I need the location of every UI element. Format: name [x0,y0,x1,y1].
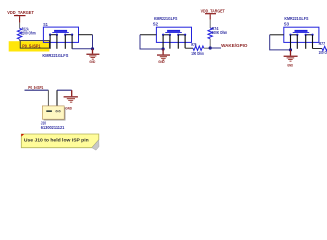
wire pin4 to R77 [313,48,323,50]
svg-text:100 Ohm: 100 Ohm [319,50,327,55]
wire pin4 to gnd node [72,48,92,50]
svg-text:KMR221GLFS: KMR221GLFS [42,53,68,58]
power flag VDD_TARGET (right) [201,8,225,19]
junction [91,47,94,50]
wire J10 pin2 up [56,90,58,106]
svg-text:S3: S3 [284,21,290,26]
svg-text:VDD_TARGET: VDD_TARGET [201,8,225,13]
wire S1 right side stub [79,34,93,36]
svg-text:P0_5-ISP1: P0_5-ISP1 [28,85,43,90]
junction node [209,46,212,49]
svg-text:GND: GND [89,60,95,64]
svg-text:S1: S1 [43,22,48,27]
svg-text:GND: GND [158,60,165,64]
svg-text:R77: R77 [319,41,326,46]
power flag VDD_TARGET (left) [7,10,34,23]
svg-text:VDD_TARGET: VDD_TARGET [7,10,34,15]
ground (S3) [284,50,298,68]
wire S2 left stub [140,34,156,36]
resistor R76 [193,46,204,50]
wire VDD to R74 [209,20,211,28]
resistor R77 (clipped at edge) [322,46,327,50]
svg-text:100K Ohm: 100K Ohm [212,30,228,35]
wire to gnd [57,89,72,91]
switch S2 body [156,27,191,42]
pins of S1 [50,35,72,49]
switch S1 body [43,27,78,42]
svg-text:GND: GND [66,106,73,110]
svg-text:KMR221GLFS: KMR221GLFS [284,16,308,21]
wire S3 left stub [270,34,284,36]
svg-text:2200 Ohm: 2200 Ohm [21,31,36,36]
ground (J10) [64,90,78,110]
wire left down to gnd node [140,35,163,49]
svg-text:WAKE/GPIO: WAKE/GPIO [221,43,248,48]
svg-text:KMR221GLFS: KMR221GLFS [154,16,177,21]
resistor R12A [17,28,21,39]
ground (S1) [86,49,99,64]
wire VDD to R12A [19,23,21,29]
wire pin4 to R76 [185,47,193,49]
wire to WAKE/GPIO [210,47,221,49]
pins of S3 [291,35,313,50]
net label box P0_5-ISP1 [20,41,49,49]
resistor R74 [208,28,212,39]
pins of S2 [163,35,185,49]
svg-text:Use J10 to held low ISP pin: Use J10 to held low ISP pin [24,138,89,144]
wire net label [25,89,49,91]
wire R12A to label [19,39,21,41]
wire R74 to node [209,39,211,48]
junction [162,47,165,50]
switch S3 body [284,27,319,42]
svg-text:S2: S2 [153,21,159,26]
wire left down to gnd node [270,35,291,50]
wire down to gnd node [92,35,94,49]
ground (S2) [157,49,170,64]
highlight (yellow) on net label [9,41,50,51]
svg-text:GND: GND [287,63,293,67]
label R12A value [21,27,36,36]
junction [289,48,292,51]
wire label to J10 pin1 [47,90,49,106]
wire R76 to node [204,47,210,49]
svg-text:P0_5-ISP1: P0_5-ISP1 [22,44,41,49]
svg-text:R76: R76 [191,42,197,47]
jumper J10 body [42,106,65,121]
svg-text:61300211121: 61300211121 [41,125,65,130]
svg-text:100 Ohm: 100 Ohm [191,51,204,56]
